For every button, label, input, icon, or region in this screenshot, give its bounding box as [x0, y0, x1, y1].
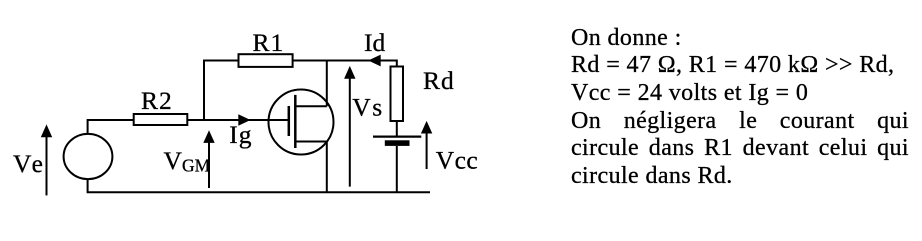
label Ig	[229, 120, 252, 149]
label Ve	[13, 149, 46, 178]
svg-text:Ig: Ig	[229, 120, 252, 149]
svg-text:Vs: Vs	[352, 93, 382, 122]
wire battery to bottom rail	[396, 146, 398, 192]
wire R1 left branch	[204, 61, 239, 121]
label Rd	[423, 66, 455, 95]
transistor M1 source lead	[295, 141, 327, 143]
arrow VGM	[203, 130, 214, 188]
voltage source Ve	[64, 134, 113, 179]
label VGM	[164, 146, 211, 176]
label R1	[253, 28, 285, 57]
transistor M1 drain lead	[295, 105, 327, 107]
resistor R2	[134, 114, 188, 125]
svg-text:GM: GM	[182, 156, 211, 176]
battery Vcc negative plate	[385, 140, 410, 146]
arrow Id	[368, 55, 381, 67]
wire bottom rail	[88, 179, 430, 193]
transistor M1 gate bar	[288, 106, 291, 136]
svg-text:Rd: Rd	[423, 66, 455, 95]
wire source vertical	[326, 142, 328, 193]
label Vs	[352, 93, 382, 122]
resistor Rd	[391, 67, 404, 122]
svg-text:Ve: Ve	[13, 149, 46, 178]
svg-text:R1: R1	[253, 28, 285, 57]
label Id	[364, 28, 385, 57]
arrow Ig	[238, 114, 250, 125]
label Vcc	[436, 145, 479, 174]
wire R2 to gate	[187, 119, 288, 121]
svg-text:Id: Id	[364, 28, 385, 57]
arrow Vcc	[421, 121, 432, 169]
arrow Vs	[344, 66, 355, 187]
transistor M1 channel bar	[294, 95, 297, 148]
transistor M1 body circle	[269, 90, 334, 155]
wire drain vertical	[326, 61, 328, 107]
svg-text:R2: R2	[141, 86, 173, 115]
svg-text:V: V	[164, 146, 183, 175]
battery Vcc positive plate	[373, 136, 421, 138]
wire Rd to battery	[396, 121, 398, 137]
wire R1 to Rd	[293, 61, 397, 68]
arrow Ve	[41, 124, 52, 195]
label R2	[141, 86, 173, 115]
resistor R1	[239, 54, 293, 67]
wire Ve top to R2	[88, 120, 134, 135]
svg-text:Vcc: Vcc	[436, 145, 479, 174]
